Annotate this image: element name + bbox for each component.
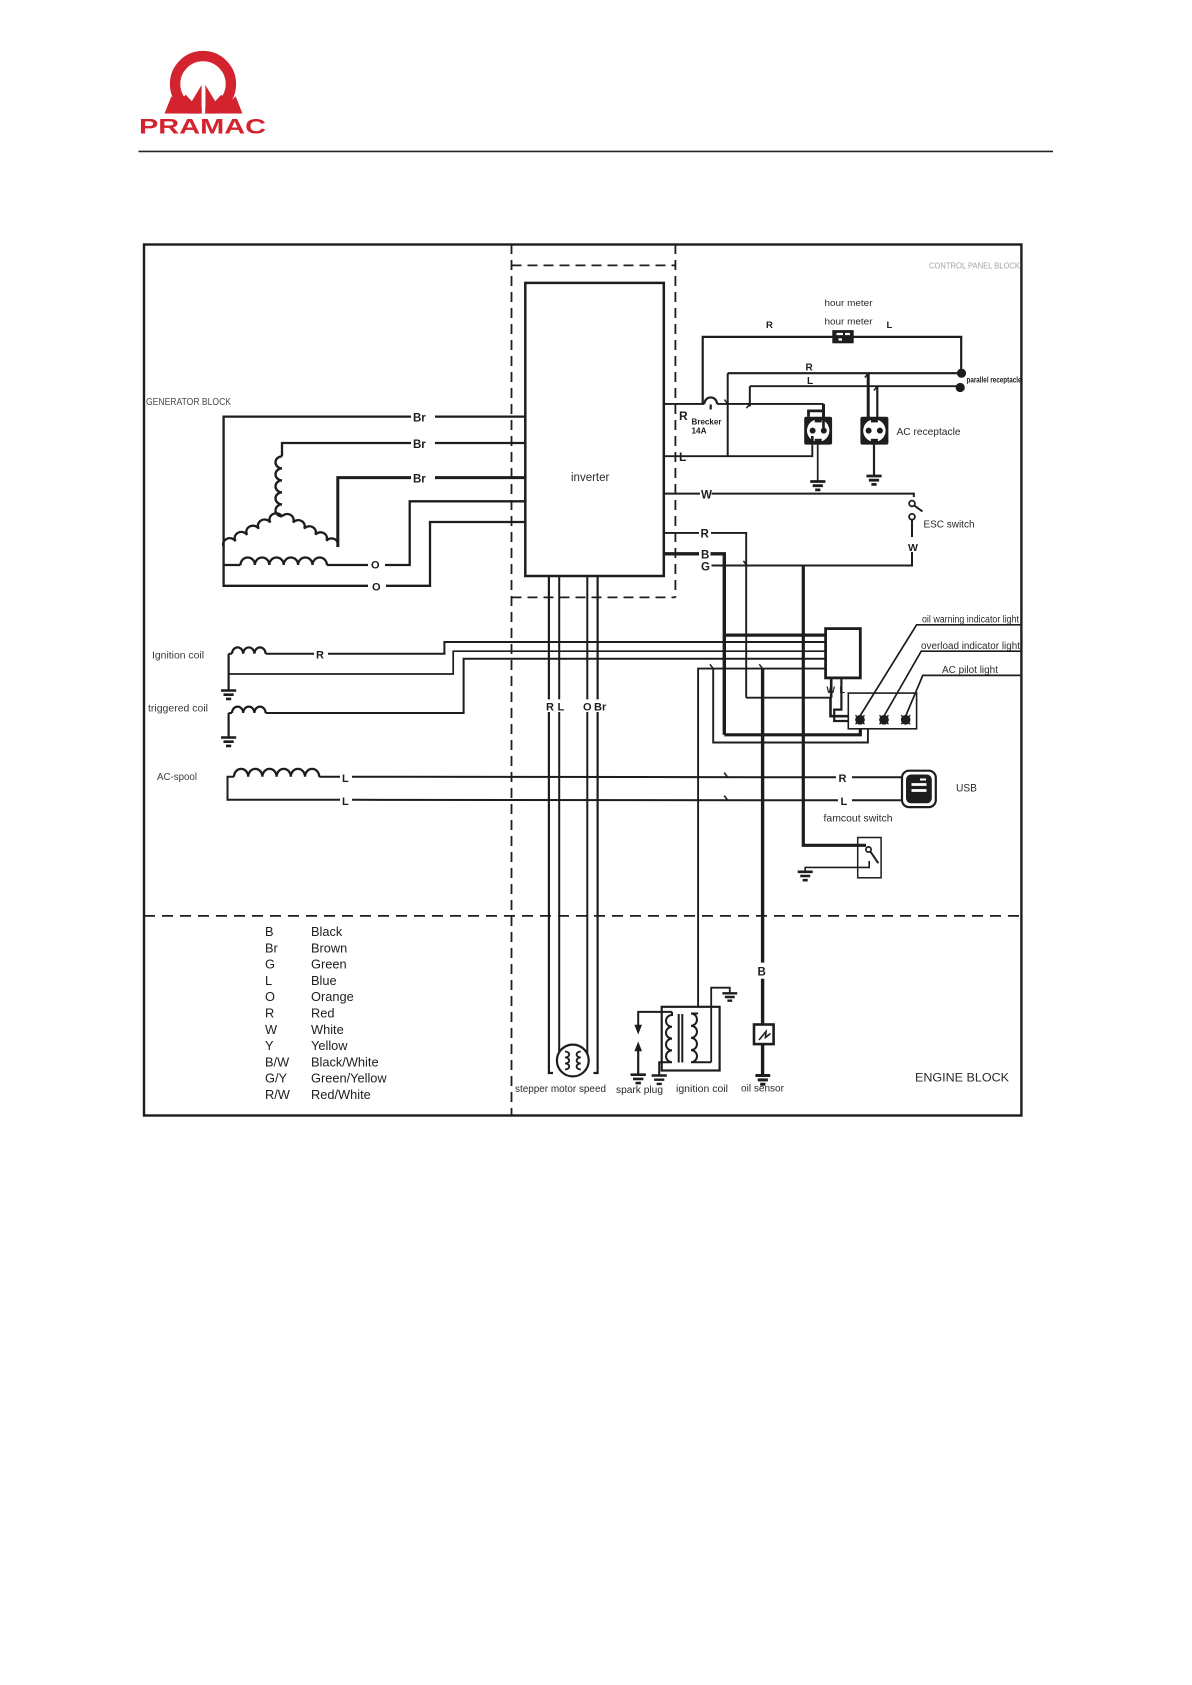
generator winding right arm [282, 514, 338, 547]
svg-text:R/WRed/White: R/WRed/White [265, 1087, 371, 1102]
junction tick R bus to receptacle2 [865, 373, 868, 377]
svg-text:Br: Br [413, 413, 426, 425]
wire B inverter output [664, 554, 725, 735]
wire famcout from G line [803, 566, 866, 846]
svg-text:14A: 14A [692, 427, 707, 436]
leader oil warning lamp [860, 625, 1021, 716]
svg-text:W: W [701, 490, 712, 502]
svg-text:R: R [679, 409, 688, 423]
spark plug ground wire [637, 1048, 639, 1075]
generator 3-phase winding top arm [275, 456, 282, 516]
triggered coil ground wire [228, 713, 230, 738]
junction dot parallel receptacle R [957, 369, 966, 378]
logo arrow slit [202, 88, 205, 114]
svg-text:hour meter: hour meter [825, 317, 874, 328]
svg-text:L: L [887, 320, 893, 331]
svg-text:ignition coil: ignition coil [676, 1084, 728, 1095]
wire hour meter to parallel receptacle [853, 337, 961, 373]
header rule [139, 150, 1054, 152]
wire R bus riser [727, 373, 729, 456]
svg-text:O: O [372, 582, 381, 594]
svg-text:O: O [583, 702, 592, 714]
leader overload lamp [884, 651, 1021, 716]
junction tick R line at L-bus riser [747, 404, 750, 408]
svg-text:triggered coil: triggered coil [148, 704, 208, 715]
wire O inverter to stepper [586, 576, 588, 1057]
USB body [902, 771, 936, 807]
svg-text:AC-spool: AC-spool [157, 772, 197, 783]
svg-text:B/WBlack/White: B/WBlack/White [265, 1054, 379, 1069]
svg-text:RRed: RRed [265, 1006, 334, 1021]
wire R inverter mid output [664, 533, 746, 698]
svg-text:R: R [316, 650, 324, 662]
svg-text:R: R [546, 702, 554, 714]
wire AC-spool upper to USB (L/R) [319, 776, 902, 779]
triggered coil winding [232, 707, 266, 713]
logo omega ring [175, 56, 231, 112]
wire Br3 [338, 478, 526, 547]
svg-text:AC receptacle: AC receptacle [897, 426, 961, 438]
junction tick lower USB wire [724, 796, 728, 801]
svg-text:YYellow: YYellow [265, 1038, 348, 1053]
inverter box [525, 283, 664, 576]
svg-text:USB: USB [956, 783, 977, 795]
wire Br1 top [224, 417, 526, 547]
svg-text:L: L [841, 796, 848, 808]
wire AC-spool lower to USB (L/L) [228, 777, 903, 801]
wire L inverter output to receptacle1 [664, 445, 813, 457]
junction tick control line at lamp riser [710, 664, 713, 668]
svg-text:L: L [840, 685, 846, 695]
wire R inverter output through breaker [664, 403, 824, 405]
ground receptacle1 [810, 482, 825, 490]
oil warning lamp [855, 715, 865, 725]
svg-text:B: B [701, 550, 709, 562]
dashed inverter box bottom [512, 596, 676, 598]
svg-text:parallel receptacle: parallel receptacle [967, 376, 1022, 385]
svg-text:Br: Br [594, 702, 607, 714]
wire Br inverter to stepper [594, 576, 598, 1073]
famcout switch contacts [805, 847, 878, 872]
LEGEND [265, 924, 387, 1102]
wire B to control unit [724, 633, 825, 636]
ignition coil secondary winding [691, 1014, 711, 1063]
wire R inverter to stepper [549, 576, 553, 1073]
wire O1 [224, 501, 526, 565]
svg-text:Brecker: Brecker [692, 418, 723, 427]
receptacle1 ground wire [817, 445, 819, 482]
leader AC pilot lamp [906, 675, 1021, 716]
ground famcout switch [798, 872, 813, 880]
svg-text:G: G [701, 562, 710, 574]
wire O2 [224, 522, 526, 586]
ignition coil secondary ground wire [711, 988, 730, 1063]
svg-text:LBlue: LBlue [265, 973, 337, 988]
junction tick upper USB wire [724, 773, 728, 778]
ignition coil core [679, 1014, 683, 1063]
dashed inverter box top [512, 264, 676, 266]
spark plug wire [638, 1012, 672, 1025]
outer diagram border [144, 245, 1021, 1116]
svg-text:L: L [679, 450, 686, 464]
wire receptacle2 left pin [867, 373, 870, 429]
PRAMAC logo [139, 56, 266, 138]
wire Br2 [282, 443, 525, 456]
svg-text:oil warning indicator light: oil warning indicator light [922, 615, 1019, 626]
svg-text:oil sensor: oil sensor [741, 1084, 785, 1095]
svg-text:ESC switch: ESC switch [924, 519, 975, 531]
AC winding coil [241, 558, 327, 566]
wire ignition secondary riser [698, 669, 826, 1006]
ignition coil winding [232, 647, 266, 653]
stepper motor body [557, 1045, 589, 1077]
stepper motor left winding [565, 1052, 569, 1070]
svg-text:GGreen: GGreen [265, 957, 347, 972]
svg-text:famcout switch: famcout switch [824, 814, 893, 825]
svg-text:Br: Br [413, 474, 426, 486]
dashed divider generator/engine [511, 244, 513, 1116]
svg-text:CONTROL PANEL BLOCK: CONTROL PANEL BLOCK [929, 262, 1021, 271]
svg-text:G/YGreen/Yellow: G/YGreen/Yellow [265, 1071, 387, 1086]
wire R ignition to control unit [229, 642, 826, 654]
junction tick control line at oil sensor riser [759, 664, 762, 668]
wire ESC switch lower to G [712, 520, 913, 566]
svg-text:inverter: inverter [571, 472, 610, 484]
wire L lamp from control unit [834, 678, 848, 721]
AC pilot lamp [901, 715, 911, 725]
wire B oil sensor [761, 669, 764, 1075]
oil sensor body [754, 1025, 774, 1045]
wire hour meter tap [703, 337, 833, 404]
wire lamp return riser [713, 669, 868, 743]
AC-spool winding [234, 769, 319, 777]
generator winding left arm [223, 513, 282, 547]
CONTROL PANEL [664, 298, 1022, 735]
junction tick R line at riser [724, 400, 727, 404]
wire L bus [750, 385, 961, 387]
ground receptacle2 [866, 476, 881, 484]
logo baseline mask [158, 114, 250, 120]
svg-text:W: W [908, 542, 918, 554]
ignition coil ground wire [228, 654, 230, 691]
INVERTER + ENGINE [515, 283, 785, 1096]
svg-text:L: L [342, 796, 349, 808]
svg-text:R: R [806, 363, 814, 374]
svg-text:R: R [701, 529, 710, 541]
spark plug gap arrows [634, 1025, 642, 1051]
dashed divider control panel left [674, 244, 676, 597]
wire W lamp from control unit [831, 678, 849, 716]
ESC switch contacts [909, 501, 922, 520]
junction tick G line at R riser [743, 561, 747, 566]
svg-text:BBlack: BBlack [265, 924, 343, 939]
svg-text:hour meter: hour meter [825, 298, 874, 309]
svg-text:spark plug: spark plug [616, 1085, 663, 1096]
oil sensor contact [759, 1032, 771, 1041]
AC receptacle 1 body [804, 417, 832, 445]
svg-text:W: W [827, 685, 836, 695]
svg-text:L: L [558, 702, 565, 714]
wire L inverter to stepper [558, 576, 560, 1055]
wire receptacle2 right pin [876, 386, 878, 429]
breaker 14A arc [704, 397, 717, 409]
svg-text:stepper motor speed: stepper motor speed [515, 1084, 606, 1095]
receptacle2 ground wire [873, 445, 875, 476]
ground spark plug [631, 1075, 646, 1083]
receptacle1 cord top [809, 411, 824, 417]
wire R riser to lamp box [746, 697, 831, 699]
svg-text:AC pilot light: AC pilot light [942, 665, 998, 676]
wire breaker riser to L bus [749, 386, 751, 406]
wire receptacle1 right pin [822, 404, 825, 418]
dashed legend divider [144, 915, 1021, 917]
ground ignition coil primary [652, 1076, 667, 1084]
svg-text:OOrange: OOrange [265, 989, 354, 1004]
junction tick L bus to receptacle2 [874, 386, 877, 390]
BORDERS [144, 244, 1021, 1116]
svg-text:ENGINE BLOCK: ENGINE BLOCK [915, 1071, 1009, 1085]
famcout switch box [858, 838, 881, 878]
svg-text:BrBrown: BrBrown [265, 940, 347, 955]
svg-text:B: B [758, 967, 766, 979]
overload lamp [879, 715, 889, 725]
svg-text:GENERATOR BLOCK: GENERATOR BLOCK [146, 396, 231, 408]
hour meter body [833, 331, 853, 343]
wire W inverter output to ESC switch [664, 494, 914, 497]
ignition coil primary winding [659, 1012, 672, 1076]
junction dot parallel receptacle L [956, 383, 965, 392]
svg-text:L: L [342, 773, 349, 785]
AC receptacle 2 body [860, 417, 888, 445]
svg-text:WWhite: WWhite [265, 1022, 344, 1037]
wire triggered coil to control unit [229, 659, 826, 713]
svg-text:R: R [766, 320, 773, 331]
ground triggered coil [221, 738, 236, 746]
logo omega body right foot with arrow notch [205, 85, 242, 114]
svg-text:R: R [839, 773, 847, 785]
logo omega body left foot with arrow notch [165, 85, 202, 114]
svg-text:overload indicator light: overload indicator light [921, 641, 1020, 652]
svg-text:O: O [371, 560, 380, 572]
ignition coil box [662, 1007, 720, 1071]
ground ignition coil secondary [722, 993, 737, 1000]
ground oil sensor [755, 1076, 770, 1085]
svg-text:L: L [807, 376, 813, 387]
wire B bottom run to lamp box [724, 729, 860, 735]
GENERATOR BLOCK [148, 413, 902, 809]
stepper motor right winding [577, 1052, 581, 1070]
ground ignition coil [221, 691, 236, 699]
MIDDLE CLUSTER [698, 566, 1021, 1007]
svg-text:PRAMAC: PRAMAC [139, 115, 266, 139]
svg-text:Ignition coil: Ignition coil [152, 651, 204, 662]
svg-text:Br: Br [413, 439, 426, 451]
wire R bus [728, 372, 962, 374]
indicator lamp box [848, 693, 916, 729]
control unit box [826, 629, 861, 678]
wire ignition tap to control unit [229, 651, 826, 674]
